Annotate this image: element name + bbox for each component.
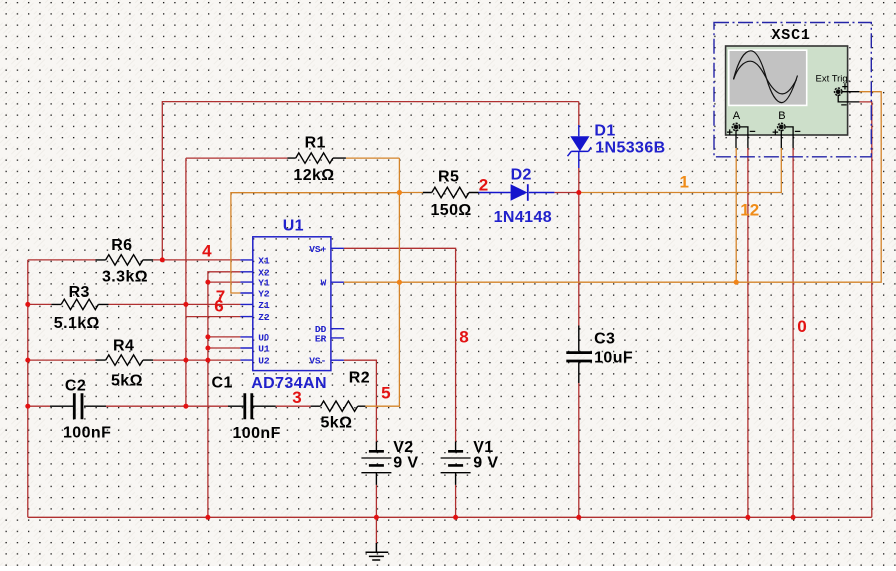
resistor R5 <box>423 169 479 219</box>
svg-text:−: − <box>794 126 800 138</box>
svg-text:R4: R4 <box>113 338 134 355</box>
svg-text:ER: ER <box>315 333 327 344</box>
junction D1 D2 C3 <box>576 190 581 195</box>
wire orange net 1 D junction to scope B plus <box>579 148 782 193</box>
scope terminal A <box>732 123 739 130</box>
junction bus R3 <box>25 302 30 307</box>
svg-text:Z1: Z1 <box>258 300 270 311</box>
wire D2 to junction red <box>554 192 578 194</box>
svg-text:U0: U0 <box>258 332 269 343</box>
svg-text:3.3kΩ: 3.3kΩ <box>102 269 148 286</box>
scope terminal B <box>778 123 785 130</box>
svg-text:−: − <box>749 126 755 138</box>
svg-text:1N4148: 1N4148 <box>494 209 552 226</box>
svg-text:U1: U1 <box>283 217 304 234</box>
svg-text:XSC1: XSC1 <box>772 27 811 44</box>
svg-text:12: 12 <box>740 200 759 219</box>
resistor R4 <box>96 338 154 390</box>
svg-text:C3: C3 <box>594 330 615 347</box>
wire VS- to V2 <box>344 360 377 544</box>
svg-text:U2: U2 <box>258 356 270 367</box>
resistor R1 <box>287 135 346 185</box>
svg-text:C2: C2 <box>65 378 86 395</box>
svg-text:R5: R5 <box>438 169 459 186</box>
wire VS+ to V1 net 8 <box>344 248 456 517</box>
svg-text:9 V: 9 V <box>473 455 498 472</box>
wire scope B minus red <box>792 148 794 517</box>
svg-text:0: 0 <box>797 317 806 336</box>
wire orange W row net 12 with ext trig riser <box>344 92 881 283</box>
svg-text:100nF: 100nF <box>63 425 111 442</box>
wire U1 stub <box>208 347 241 349</box>
svg-text:Y1: Y1 <box>258 278 270 289</box>
junction B U2 <box>205 358 210 363</box>
junction B U1 <box>205 346 210 351</box>
svg-text:3: 3 <box>292 388 301 407</box>
capacitor C3 <box>566 326 633 384</box>
svg-text:+: + <box>772 127 778 139</box>
svg-text:5kΩ: 5kΩ <box>321 415 353 432</box>
svg-text:R3: R3 <box>69 284 90 301</box>
junction bus C3 <box>576 515 581 520</box>
wire D1 C3 vertical red parts <box>578 102 580 518</box>
junction bus scope B minus <box>791 515 796 520</box>
svg-text:R2: R2 <box>349 369 370 386</box>
svg-text:AD734AN: AD734AN <box>251 375 327 392</box>
svg-text:D2: D2 <box>511 167 532 184</box>
wire scope A minus red <box>747 148 749 517</box>
junction R6 X1 <box>160 257 165 262</box>
svg-text:D1: D1 <box>594 123 615 140</box>
svg-text:4: 4 <box>202 242 212 261</box>
svg-text:U1: U1 <box>258 344 270 355</box>
wire top net from vertical to D1 <box>162 102 579 260</box>
junction orange R1 R5 <box>397 190 402 195</box>
battery V1 9V <box>441 439 499 485</box>
svg-text:8: 8 <box>459 328 468 347</box>
wire X1 row right segment to X1 pin <box>153 259 240 261</box>
wire R4 row <box>28 359 241 361</box>
svg-text:5kΩ: 5kΩ <box>111 373 143 390</box>
svg-text:B: B <box>778 110 785 122</box>
svg-text:1N5336B: 1N5336B <box>595 140 665 157</box>
wire R1 left lead <box>186 157 288 159</box>
svg-text:5.1kΩ: 5.1kΩ <box>54 315 100 332</box>
junction A R4 <box>183 358 188 363</box>
wire U0 stub <box>208 336 241 338</box>
wire orange R1 right <box>346 157 400 159</box>
svg-text:R1: R1 <box>305 135 326 152</box>
wire capacitor row red segments <box>28 405 311 407</box>
resistor R3 <box>51 284 108 332</box>
ground <box>366 543 389 560</box>
svg-text:Z2: Z2 <box>258 312 270 323</box>
wire vertical B with X2 stub <box>208 272 241 518</box>
wire orange R5 left <box>399 192 423 194</box>
resistor R6 <box>96 237 154 286</box>
junction B U0 <box>205 334 210 339</box>
svg-text:100nF: 100nF <box>233 425 281 442</box>
svg-text:VS+: VS+ <box>309 244 326 255</box>
svg-text:R6: R6 <box>111 237 132 254</box>
junction bus B vertical <box>205 515 210 520</box>
wire Z2 stub <box>186 316 241 318</box>
junction bus scope A minus <box>745 515 750 520</box>
svg-text:C1: C1 <box>212 375 233 392</box>
wire ext trig minus red <box>859 102 871 517</box>
zener diode D1 1N5336B <box>568 123 666 168</box>
junction A C2 <box>183 404 188 409</box>
wire bottom ground bus <box>28 516 872 518</box>
oscilloscope XSC1 <box>714 23 871 157</box>
wire X1 row left segment <box>28 259 96 261</box>
svg-text:Y2: Y2 <box>258 289 270 300</box>
battery V2 9V <box>361 439 418 485</box>
junction bus V2 <box>374 515 379 520</box>
junction bus R4 <box>25 358 30 363</box>
junction orange W scope A <box>734 280 739 285</box>
junction B Y1 <box>205 280 210 285</box>
scope terminal Ext Trig <box>835 88 842 95</box>
svg-text:VS-: VS- <box>309 356 326 367</box>
svg-text:+: + <box>727 127 733 139</box>
junction orange W riser <box>397 280 402 285</box>
svg-text:6: 6 <box>214 296 223 315</box>
wire Y1 stub <box>208 281 241 283</box>
diode D2 1N4148 <box>479 167 555 226</box>
scope stub wires black <box>736 92 859 148</box>
op-amp multiplier U1 AD734AN <box>240 217 344 392</box>
wire R3 row <box>28 303 241 305</box>
junction A R3 <box>183 302 188 307</box>
resistor R2 <box>311 369 370 431</box>
wire orange net 5 R2 riser <box>365 158 399 406</box>
capacitor C1 <box>212 375 281 442</box>
capacitor C2 <box>50 378 111 442</box>
wire vertical A from R1 to C2 row <box>185 158 187 406</box>
wire orange scope A plus <box>735 148 737 282</box>
svg-text:150Ω: 150Ω <box>431 202 472 219</box>
wire left bus vertical <box>27 260 29 517</box>
wire orange Y2 branch <box>231 193 400 293</box>
junction bus C2 <box>25 404 30 409</box>
svg-text:12kΩ: 12kΩ <box>293 167 334 184</box>
svg-text:A: A <box>733 110 741 122</box>
svg-text:1: 1 <box>680 173 689 192</box>
svg-text:2: 2 <box>479 176 488 195</box>
svg-text:5: 5 <box>381 384 390 403</box>
svg-text:9 V: 9 V <box>393 455 418 472</box>
junction bus V1 <box>453 515 458 520</box>
svg-text:W: W <box>321 278 327 289</box>
svg-text:10uF: 10uF <box>594 349 633 366</box>
svg-text:X1: X1 <box>258 255 270 266</box>
